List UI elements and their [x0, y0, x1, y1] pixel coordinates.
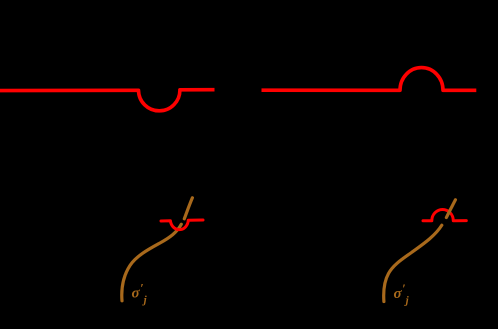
wire: bottom-left brown curve (lower part)	[122, 224, 182, 300]
wire: bottom-left red segment with dip	[161, 220, 203, 230]
wire: bottom-left brown curve (upper part)	[184, 198, 192, 219]
wire: bottom-right red segment with bump	[423, 209, 466, 220]
wire: top-right contour with bump above pole	[262, 68, 477, 91]
wire: top-left contour with dip below pole	[0, 90, 215, 111]
wire: bottom-right brown curve (lower part)	[384, 225, 442, 301]
wire: bottom-right brown curve (upper part, drawn over red arc)	[446, 200, 455, 218]
